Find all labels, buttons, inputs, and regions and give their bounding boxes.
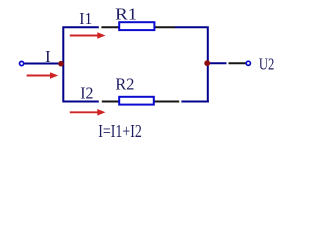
svg-text:I=I1+I2: I=I1+I2 (98, 121, 142, 141)
wire R1 right lead (black) (155, 26, 175, 28)
wire R2 right lead (black) (154, 101, 179, 103)
svg-text:R2: R2 (115, 75, 134, 94)
current arrow I2 (70, 109, 106, 116)
wire bottom-right rail (181, 101, 208, 103)
svg-text:R1: R1 (115, 4, 137, 23)
current arrow I1 (70, 32, 106, 39)
svg-text:I2: I2 (80, 84, 93, 103)
wire right branch (top-right rail, right vertical) (175, 27, 208, 102)
svg-text:I1: I1 (79, 9, 92, 28)
resistor R2 (119, 97, 154, 105)
wire R2 left lead (black) (102, 101, 119, 103)
wire node B to output (navy part) (210, 62, 227, 64)
svg-text:U2: U2 (259, 55, 274, 74)
resistor R1 (119, 22, 154, 30)
wire left branch (top-left rail, left vertical, bottom-left rail) (63, 27, 99, 101)
wire output lead (black part) (229, 62, 247, 64)
terminal input (left) (20, 61, 24, 65)
svg-text:I: I (45, 47, 51, 66)
current arrow I (27, 72, 59, 79)
node B junction dot (204, 60, 210, 66)
terminal output (right) (246, 61, 250, 65)
wire input lead (left terminal to node A) (24, 63, 61, 65)
wire R1 left lead (black) (101, 26, 119, 28)
node A junction dot (58, 61, 64, 67)
